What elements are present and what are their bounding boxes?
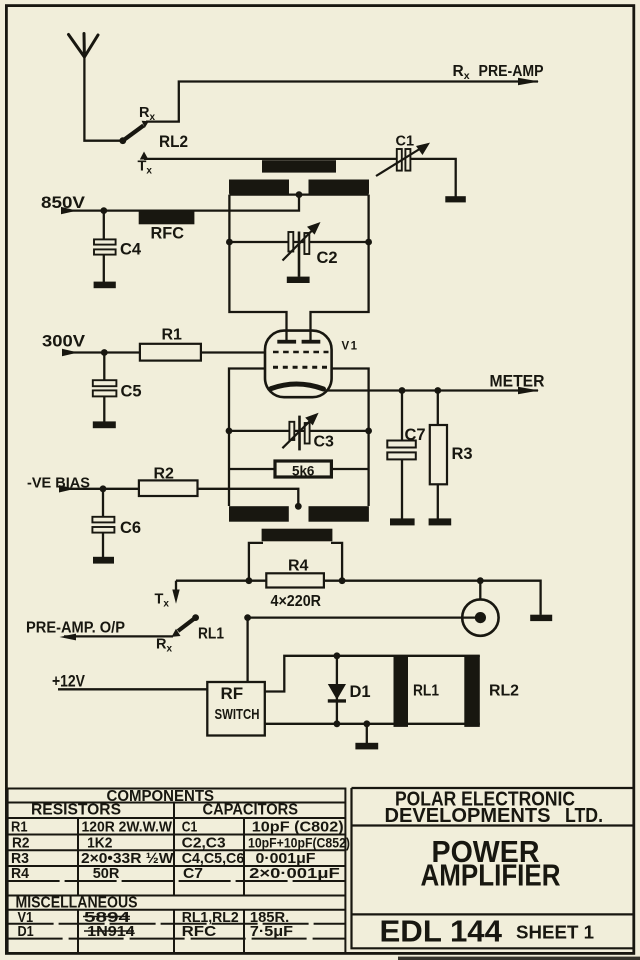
relay coil RL2 [464,656,480,727]
svg-text:C1: C1 [396,134,415,150]
svg-text:CAPACITORS: CAPACITORS [203,802,299,819]
wire Rx contact to Rx pre-amp output [146,82,538,122]
svg-text:120R 2W.W.W: 120R 2W.W.W [82,819,173,836]
node junction link right [339,577,346,584]
svg-text:C2: C2 [317,249,338,267]
node junction switch/RF box [244,614,251,621]
relay coil RL1 [394,656,409,727]
coil L1 anode tank primary [262,160,336,172]
capacitor C4 [94,211,116,282]
node junction C7 [399,387,406,394]
wire +12V to RF box [58,688,207,690]
wire antenna down to RL2 pivot [84,56,122,141]
node Rx PRE-AMP arrow [518,78,539,85]
ground below R3 [429,518,452,525]
wire grid2 left to lower tank [229,369,265,507]
node junction 850V/C4 [100,207,107,214]
svg-text:C1: C1 [182,819,198,836]
wire grid2 right to lower tank [332,369,368,507]
wire tank right vertical [311,195,369,341]
svg-text:10pF+10pF(C852): 10pF+10pF(C852) [248,835,350,850]
ground below relay line [366,724,368,743]
wire C1 to ground [410,159,455,197]
node junction ground stub [363,720,370,727]
resistor R3 [437,391,439,426]
ground right of R4 row [530,615,552,621]
svg-text:C2,C3: C2,C3 [182,834,226,851]
capacitor C6 [92,489,114,557]
svg-text:C7: C7 [405,426,426,444]
node junction D1 bottom [334,720,341,727]
svg-text:10pF (C802): 10pF (C802) [252,819,344,836]
svg-text:C5: C5 [121,383,142,401]
svg-text:R2: R2 [154,466,175,483]
svg-text:D1: D1 [350,683,371,701]
wire R4 row [176,581,541,615]
contact Tx down arrow [175,581,177,596]
ground below C4 [94,282,116,289]
grid 1 dotted [273,351,329,354]
svg-text:D1: D1 [18,923,34,940]
node junction 300V/C5 [101,349,108,356]
svg-text:R1: R1 [162,327,183,344]
svg-text:50R: 50R [93,865,120,882]
svg-text:5k6: 5k6 [292,463,315,479]
wire 300V to R1 [64,351,140,353]
antenna [69,34,99,58]
svg-text:C7: C7 [183,865,203,882]
resistor R2 [139,480,198,496]
coil L2 anode tank split winding right [309,180,370,194]
svg-text:METER: METER [490,372,545,391]
ground below C2 [287,277,310,283]
capacitor C3 split stator [226,413,372,451]
table text [31,788,298,819]
svg-text:RF: RF [221,684,244,703]
wire RF box lower output [265,723,480,725]
strike marks on V1/D1 values [83,916,130,918]
svg-text:DEVELOPMENTS: DEVELOPMENTS [385,805,551,827]
resistor R1 [140,344,201,361]
ground below C7 [390,518,415,525]
svg-text:RL1: RL1 [413,683,439,700]
ground right of C1 [445,196,466,202]
capacitor C2 split stator [226,222,372,277]
wire switch to RF box [246,618,248,682]
svg-text:RFC: RFC [182,923,217,940]
coil L4 output link [262,529,333,542]
wire link right leg [331,543,342,581]
diode D1 [336,656,338,724]
wire pre-amp output [64,635,173,637]
resistor R4 [266,573,324,587]
svg-text:C3: C3 [314,434,335,451]
svg-text:R1: R1 [11,819,28,836]
wire R1 to grid [201,351,265,353]
wire under split winding [229,193,368,195]
title block frame [352,788,634,948]
inductor RFC [139,210,195,225]
svg-text:+12V: +12V [52,672,86,691]
valve V1 [265,331,332,398]
coil L3 grid tank left [229,506,289,522]
capacitor C1 variable [376,134,430,177]
svg-text:AMPLIFIER: AMPLIFIER [421,858,561,893]
svg-text:1K2: 1K2 [87,834,112,851]
svg-text:V1: V1 [342,341,359,353]
ground below C5 [93,421,116,428]
wire bias to R2 [61,488,139,490]
components table frame [8,789,346,953]
wire RF box upper output [265,656,480,692]
svg-text:EDL 144: EDL 144 [380,915,503,949]
RF switch box U1 [207,682,264,736]
svg-text:COMPONENTS: COMPONENTS [107,788,215,805]
coil L2 anode tank split winding left [229,180,289,194]
coax connector J1 [479,581,481,600]
svg-text:RL2: RL2 [159,132,188,151]
wire 850V feed [63,195,299,211]
svg-text:4×220R: 4×220R [271,593,322,610]
svg-text:R4: R4 [288,558,309,575]
svg-text:SWITCH: SWITCH [215,706,260,723]
resistor 5k6 [229,468,369,470]
node METER arrow [518,387,539,394]
wire tank left vertical [229,195,286,341]
capacitor C5 [93,353,117,422]
svg-text:SHEET 1: SHEET 1 [516,922,594,943]
svg-text:7·5μF: 7·5μF [250,923,293,940]
grid 2 dotted [273,366,328,369]
node junction D1 top [334,652,341,659]
node junction link left [246,577,253,584]
svg-text:R3: R3 [452,445,473,463]
ground below C6 [93,557,114,564]
coil L3 grid tank right [309,506,369,522]
node center tap [296,191,303,198]
wire R2 to coil center tap [198,489,299,505]
svg-text:300V: 300V [42,332,86,351]
svg-text:R4: R4 [11,865,30,882]
wire anode to meter [326,389,538,391]
wire coax to RL1 switch [248,616,477,618]
wire link left leg [249,543,263,581]
svg-text:2×0·001μF: 2×0·001μF [249,865,340,882]
relay contact RL1 [156,614,224,654]
svg-text:C6: C6 [120,519,141,537]
svg-text:RFC: RFC [151,225,185,243]
svg-text:RESISTORS: RESISTORS [31,802,121,819]
photo edge shadow [398,957,640,960]
node junction bias/C6 [100,485,107,492]
wire Tx contact to anode tank / C1 [144,158,397,160]
relay contact RL2 [119,105,188,176]
svg-text:RL1: RL1 [198,626,224,643]
svg-text:LTD.: LTD. [565,805,603,827]
node junction R3 [434,387,441,394]
svg-text:RL2: RL2 [489,683,519,700]
capacitor C7 [387,391,416,519]
node junction coax feed [477,577,484,584]
node grid coil center tap [295,503,302,510]
cathode swoosh [271,384,324,389]
svg-text:C4: C4 [120,241,142,259]
svg-text:R2: R2 [12,834,30,851]
